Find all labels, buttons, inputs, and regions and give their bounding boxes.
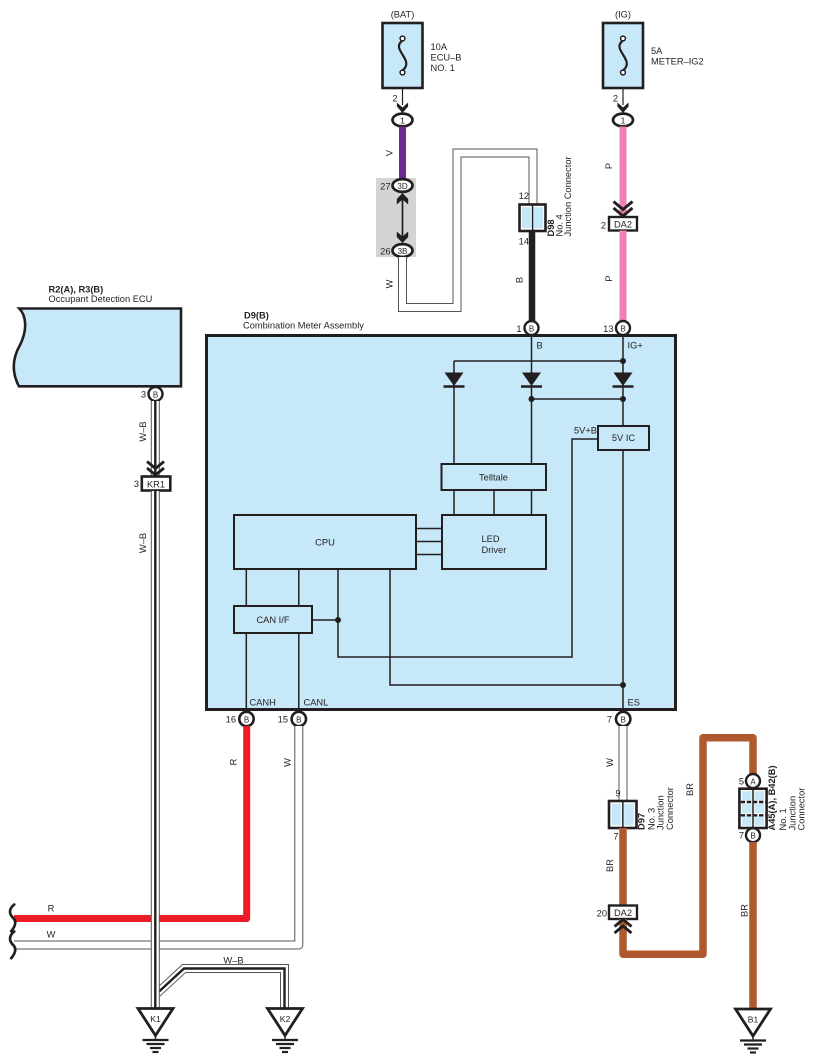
connector DA2 (pink)	[601, 217, 637, 231]
svg-text:A45(A), B42(B): A45(A), B42(B)	[767, 765, 777, 830]
svg-text:9: 9	[615, 789, 620, 799]
svg-text:KR1: KR1	[147, 480, 165, 490]
diode D1	[444, 373, 465, 387]
svg-text:No. 1: No. 1	[778, 808, 788, 830]
wire P pink upper	[604, 127, 623, 219]
diode D3	[613, 373, 634, 387]
svg-text:Driver: Driver	[482, 545, 507, 555]
svg-text:CAN I/F: CAN I/F	[256, 615, 289, 625]
wire BR DA2 to A45 pin 5	[623, 738, 753, 955]
wire W-B lower to K1	[138, 491, 155, 1009]
combination meter assembly D9(B) box	[207, 310, 676, 709]
wire fuse F2 to connector 1	[613, 88, 629, 113]
svg-text:W: W	[385, 279, 395, 288]
wire CPU to CAN I/F right	[298, 569, 300, 606]
svg-text:B: B	[537, 341, 543, 351]
bus CPU to LED driver	[416, 529, 442, 555]
svg-text:ES: ES	[628, 698, 640, 708]
wire CANL internal	[298, 633, 300, 710]
svg-text:CANH: CANH	[250, 698, 276, 708]
wire CAN I/F to 5V+B node	[312, 619, 338, 621]
svg-text:B: B	[620, 324, 625, 333]
wire W pin7 to D97	[605, 726, 623, 801]
svg-text:3: 3	[134, 479, 139, 489]
svg-text:W: W	[283, 758, 293, 767]
CAN I/F block	[234, 606, 312, 633]
torn-edge squiggle red wire	[10, 905, 15, 932]
svg-text:14: 14	[519, 237, 529, 247]
svg-text:B: B	[296, 715, 301, 724]
wire BR D97 to DA2	[605, 828, 623, 906]
svg-text:5: 5	[739, 777, 744, 787]
telltale block	[442, 464, 547, 490]
wire fuse F1 to connector 1	[392, 88, 408, 113]
svg-text:BR: BR	[685, 783, 695, 796]
svg-text:W–B: W–B	[138, 533, 148, 553]
wire horizontal rail 2	[529, 396, 627, 402]
wire diode D1 branch	[453, 361, 455, 464]
wire B pin1 to diode D2	[531, 335, 533, 374]
svg-text:K1: K1	[150, 1014, 161, 1024]
ground B1	[736, 1009, 771, 1053]
svg-text:R: R	[229, 758, 239, 765]
svg-text:7: 7	[607, 715, 612, 725]
svg-text:BR: BR	[740, 904, 750, 917]
wire W white CANL	[14, 726, 299, 945]
pin 7 (B) meter	[607, 712, 631, 726]
svg-text:26: 26	[380, 247, 390, 257]
svg-text:METER–IG2: METER–IG2	[651, 57, 704, 67]
wire P pink lower	[604, 231, 623, 323]
svg-text:Combination Meter Assembly: Combination Meter Assembly	[243, 321, 364, 331]
diode D2	[521, 373, 542, 387]
svg-text:10A: 10A	[431, 42, 448, 52]
svg-text:R: R	[48, 904, 55, 914]
svg-text:CANL: CANL	[304, 698, 329, 708]
pin 7 (B) of A45	[739, 828, 760, 842]
fuse F2 METER-IG2	[603, 10, 704, 89]
svg-text:V: V	[385, 149, 395, 156]
svg-text:15: 15	[278, 715, 288, 725]
svg-text:K2: K2	[280, 1014, 291, 1024]
svg-text:BR: BR	[605, 859, 615, 872]
pin 13 (B) meter	[603, 321, 630, 335]
svg-text:A: A	[750, 777, 756, 786]
svg-text:1: 1	[621, 116, 626, 126]
wire B black D98 to pin 1	[515, 231, 533, 322]
svg-text:3B: 3B	[398, 247, 408, 256]
torn-edge squiggle white wire	[10, 932, 15, 959]
net label ES	[628, 698, 640, 708]
wire CPU to ES rail	[390, 569, 626, 688]
wire CPU to CAN I/F left	[245, 569, 247, 606]
connector 1 (IG circuit)	[613, 114, 633, 127]
pin 16 (B) meter	[226, 712, 254, 726]
wire 5V+B feed	[335, 439, 598, 657]
wire BR A45 to B1	[740, 842, 754, 1010]
wire IG+ pin13 down to 5V IC	[622, 335, 624, 426]
LED driver block	[442, 515, 546, 569]
svg-text:CPU: CPU	[315, 538, 335, 548]
connector KR1	[134, 477, 170, 491]
net label CANL	[304, 698, 329, 708]
svg-text:ECU–B: ECU–B	[431, 53, 462, 63]
svg-text:16: 16	[226, 715, 236, 725]
svg-text:B: B	[153, 390, 158, 399]
svg-text:5V+B: 5V+B	[574, 426, 597, 436]
junction connector D98	[519, 156, 573, 246]
svg-text:DA2: DA2	[614, 908, 632, 918]
connector DA2 (brown)	[597, 906, 637, 920]
occupant detection ECU box R2/R3	[14, 285, 181, 387]
wire V (violet)	[385, 127, 403, 181]
svg-text:B: B	[515, 277, 525, 283]
svg-text:W: W	[605, 758, 615, 767]
svg-text:2: 2	[392, 94, 397, 104]
wire horizontal rail 1	[454, 358, 626, 364]
junction connector D97	[609, 787, 675, 841]
svg-text:3D: 3D	[397, 182, 407, 191]
svg-text:IG+: IG+	[628, 341, 643, 351]
svg-text:W: W	[47, 930, 56, 940]
svg-text:P: P	[604, 275, 614, 281]
chevron out of DA2 (brown)	[615, 920, 632, 934]
svg-text:12: 12	[519, 191, 529, 201]
svg-text:W–B: W–B	[223, 956, 243, 966]
pin 5 (A) of A45	[739, 774, 760, 788]
junction connector A45/B42	[739, 765, 806, 830]
svg-text:2: 2	[613, 94, 618, 104]
svg-text:W–B: W–B	[138, 421, 148, 441]
svg-text:5V IC: 5V IC	[612, 433, 636, 443]
pin 3 (B) of occupant ECU	[141, 387, 163, 401]
svg-text:(BAT): (BAT)	[391, 10, 415, 20]
fuse F1 ECU-B NO.1	[383, 10, 462, 89]
svg-text:2: 2	[601, 221, 606, 231]
ground K2	[268, 1009, 303, 1053]
svg-text:B1: B1	[748, 1015, 759, 1025]
CPU block	[234, 515, 416, 569]
svg-text:D97: D97	[637, 813, 647, 830]
svg-text:20: 20	[597, 909, 607, 919]
wire W-B branch to K2	[155, 956, 284, 1010]
svg-text:5A: 5A	[651, 46, 663, 56]
wire ES internal	[622, 450, 624, 710]
wire CANH internal	[245, 633, 247, 710]
svg-text:27: 27	[380, 182, 390, 192]
svg-text:(IG): (IG)	[615, 10, 631, 20]
svg-text:Junction: Junction	[656, 795, 666, 830]
net label B inside meter	[537, 341, 543, 351]
pin 1 (B) meter	[516, 321, 538, 335]
svg-text:B: B	[529, 324, 534, 333]
chevron into DA2 (pink)	[614, 202, 633, 217]
chevron into KR1	[147, 462, 164, 476]
svg-text:D9(B): D9(B)	[244, 310, 269, 320]
svg-text:B: B	[621, 715, 626, 724]
svg-text:1: 1	[400, 116, 405, 126]
svg-text:R2(A), R3(B): R2(A), R3(B)	[49, 285, 104, 295]
svg-text:NO. 1: NO. 1	[431, 63, 455, 73]
wire W-B upper	[138, 401, 155, 477]
svg-text:Occupant Detection ECU: Occupant Detection ECU	[49, 294, 153, 304]
connector 1 (BAT circuit)	[393, 114, 413, 127]
svg-text:B: B	[750, 832, 755, 841]
wire D2 cathode to telltale	[531, 386, 533, 464]
svg-text:Junction Connector: Junction Connector	[563, 156, 573, 236]
net label IG+ inside meter	[628, 341, 643, 351]
ground K1	[138, 1009, 173, 1053]
svg-text:B: B	[244, 715, 249, 724]
svg-text:7: 7	[613, 832, 618, 842]
wires telltale to LED driver	[454, 490, 532, 515]
5V IC block	[574, 426, 649, 451]
pin 15 (B) meter	[278, 712, 306, 726]
svg-text:Telltale: Telltale	[479, 473, 508, 483]
wire W from 3B to D98	[385, 153, 534, 308]
wire R red CANH	[14, 726, 247, 919]
junction block 3D/3B gray	[376, 178, 416, 257]
svg-text:P: P	[604, 163, 614, 169]
svg-text:1: 1	[516, 324, 521, 334]
svg-text:7: 7	[739, 831, 744, 841]
svg-text:Connector: Connector	[797, 788, 807, 831]
svg-text:DA2: DA2	[614, 220, 632, 230]
svg-text:LED: LED	[482, 534, 500, 544]
net label CANH	[250, 698, 276, 708]
svg-text:Connector: Connector	[665, 787, 675, 830]
svg-text:3: 3	[141, 390, 146, 400]
svg-text:13: 13	[603, 324, 613, 334]
